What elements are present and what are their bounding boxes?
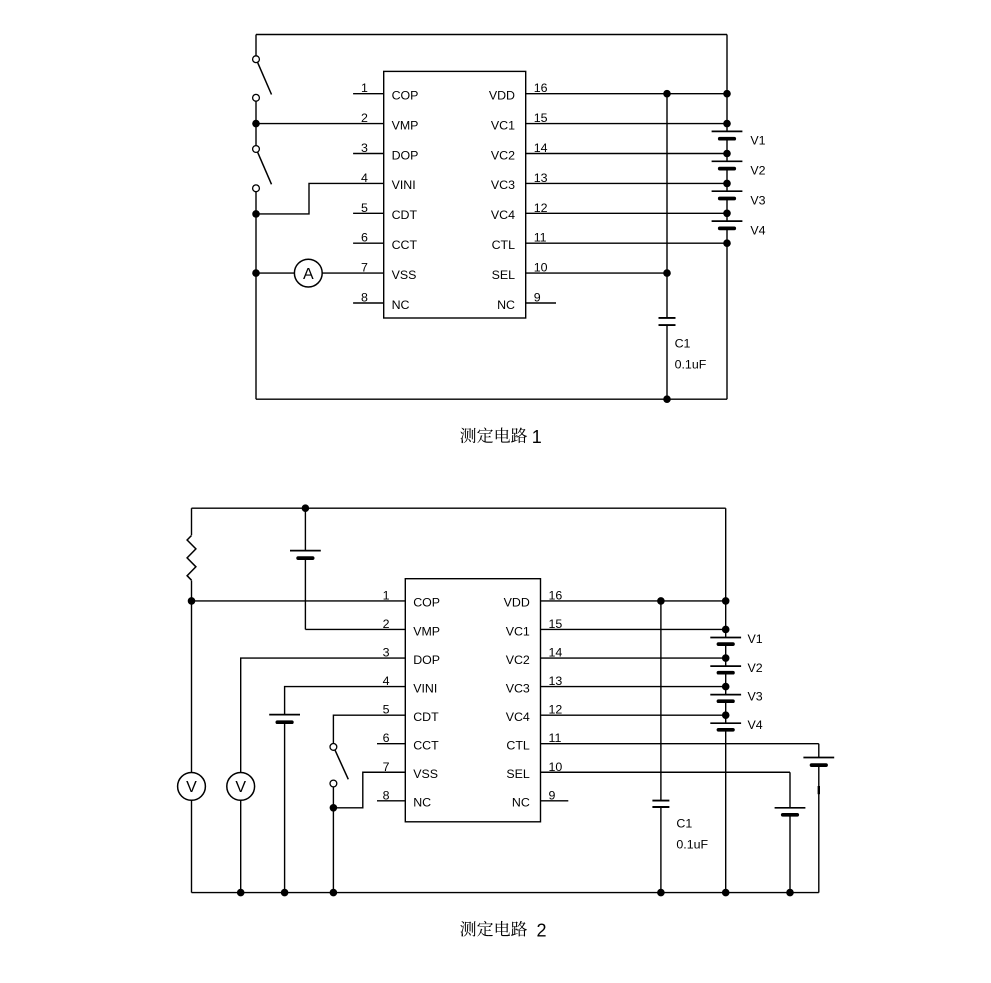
- svg-text:V3: V3: [748, 689, 763, 703]
- caption: 测定电路 2: [460, 920, 546, 940]
- battery B3 branch (from CTL): [803, 744, 834, 893]
- wire: capacitor C1 branch (circuit 2) lower: [660, 807, 662, 893]
- svg-text:VMP: VMP: [413, 624, 440, 638]
- battery B2: [269, 715, 300, 723]
- battery V2 (circuit 2): [710, 666, 741, 673]
- svg-text:VC3: VC3: [491, 178, 515, 192]
- wire: circuit-1 top rail: [256, 34, 727, 36]
- node: junction on left rail at pin 5 level: [252, 210, 260, 218]
- svg-text:V2: V2: [750, 164, 765, 178]
- node: SEL / C1 junction: [663, 269, 671, 277]
- wire: battery stack column segments (circuit 2): [725, 508, 727, 892]
- svg-text:8: 8: [361, 291, 368, 305]
- svg-text:VC4: VC4: [491, 208, 515, 222]
- node: battery stack junction at pin 11: [723, 239, 731, 247]
- U2 pin 8 stub: [377, 800, 405, 802]
- svg-text:VINI: VINI: [392, 178, 416, 192]
- U1 pin 9 stub: [526, 302, 556, 304]
- svg-text:6: 6: [383, 731, 390, 745]
- wire: switch to bottom rail: [332, 787, 334, 893]
- svg-text:COP: COP: [392, 89, 419, 103]
- svg-text:NC: NC: [497, 298, 515, 312]
- node: battery stack junction at pin 12 (circuit 2): [722, 711, 730, 719]
- svg-text:CCT: CCT: [413, 739, 439, 753]
- wire: U2 pin 14 to battery stack: [541, 657, 726, 659]
- wire: U1 pin 16 (VDD) to battery stack: [526, 93, 727, 95]
- U1 pin 8 stub: [353, 302, 384, 304]
- wire: battery stack column segments: [726, 35, 728, 400]
- node: VDD / C1 junction: [663, 90, 671, 98]
- wire: circuit-1 bottom rail: [256, 398, 727, 400]
- wire: stepped wire from switch branch to U2 pin 7 (VSS): [333, 772, 405, 808]
- svg-text:VC2: VC2: [506, 653, 530, 667]
- switch S2 (open): [253, 146, 272, 192]
- svg-text:C1: C1: [675, 336, 691, 350]
- svg-text:8: 8: [383, 788, 390, 802]
- svg-text:VMP: VMP: [392, 118, 419, 132]
- svg-text:VC3: VC3: [506, 681, 530, 695]
- wire: circuit-1 left rail upper segment: [255, 35, 257, 56]
- svg-text:5: 5: [383, 703, 390, 717]
- svg-text:VINI: VINI: [413, 681, 437, 695]
- U2 pin 6 stub: [377, 743, 405, 745]
- battery V4 (circuit 2): [710, 723, 741, 730]
- wire: capacitor C1 branch upper: [666, 94, 668, 317]
- wire: U1 pin 11 to battery stack: [526, 242, 727, 244]
- wire: circuit-2 left rail above resistor: [191, 508, 193, 535]
- svg-text:4: 4: [361, 171, 368, 185]
- wire: U2 pin 5 (CDT) branch to switch: [333, 715, 405, 743]
- svg-text:2: 2: [537, 920, 547, 940]
- svg-text:V4: V4: [748, 718, 763, 732]
- battery B4 branch (from SEL): [775, 772, 806, 892]
- wire: ammeter to U1 pin 7 (VSS): [322, 272, 384, 274]
- svg-text:7: 7: [361, 261, 368, 275]
- node: battery stack junction at pin 16: [723, 90, 731, 98]
- wire: U1 pin 13 to battery stack: [526, 182, 727, 184]
- svg-text:COP: COP: [413, 596, 440, 610]
- svg-text:VC2: VC2: [491, 148, 515, 162]
- wire: B2 to bottom rail: [284, 722, 286, 892]
- wire: U1 pin 15 to battery stack: [526, 123, 727, 125]
- svg-text:VSS: VSS: [392, 268, 417, 282]
- wire: U2 pin 12 to battery stack: [541, 714, 726, 716]
- node: B4 / bottom rail junction: [786, 889, 794, 897]
- svg-text:V2: V2: [748, 661, 763, 675]
- wire: U2 pin 10 (SEL) to battery B4: [541, 771, 791, 773]
- svg-text:2: 2: [383, 617, 390, 631]
- battery B1 branch from top rail: [290, 508, 321, 629]
- svg-text:V: V: [235, 779, 246, 796]
- node: battery stack / bottom rail junction (circuit 2): [722, 889, 730, 897]
- wire: capacitor C1 branch lower: [666, 325, 668, 399]
- wire: capacitor C1 branch (circuit 2) upper: [660, 601, 662, 801]
- node: voltmeter 2 / bottom rail junction: [237, 889, 245, 897]
- svg-text:5: 5: [361, 201, 368, 215]
- svg-text:V4: V4: [750, 223, 765, 237]
- svg-text:DOP: DOP: [392, 148, 419, 162]
- wire: U2 pin 11 (CTL) to battery B3: [541, 743, 819, 745]
- battery V2: [712, 161, 743, 168]
- svg-text:VDD: VDD: [504, 596, 530, 610]
- wire: circuit-2 bottom rail: [192, 892, 819, 894]
- svg-text:1: 1: [383, 588, 390, 602]
- svg-text:A: A: [303, 266, 314, 283]
- wire: U1 pin 14 to battery stack: [526, 153, 727, 155]
- svg-text:CDT: CDT: [413, 710, 439, 724]
- svg-text:VSS: VSS: [413, 767, 438, 781]
- switch S1 (open): [253, 56, 272, 101]
- wire: left rail down to voltmeter 1: [191, 601, 193, 773]
- svg-text:3: 3: [383, 646, 390, 660]
- IC U2 body (circuit 2): [405, 579, 540, 822]
- node: battery stack junction at pin 12: [723, 210, 731, 218]
- svg-text:V1: V1: [748, 632, 763, 646]
- wire: voltmeter 2 to bottom rail: [240, 800, 242, 892]
- resistor (zigzag): [187, 536, 196, 581]
- caption: 测定电路 1: [460, 427, 542, 447]
- svg-text:VC4: VC4: [506, 710, 530, 724]
- svg-text:C1: C1: [676, 817, 692, 831]
- wire: U2 pin 13 to battery stack: [541, 686, 726, 688]
- svg-text:CCT: CCT: [392, 238, 418, 252]
- wire: U2 pin 15 to battery stack: [541, 628, 726, 630]
- capacitor C1 (circuit 2): [652, 801, 669, 807]
- U1 pin 3 stub: [353, 153, 384, 155]
- svg-text:DOP: DOP: [413, 653, 440, 667]
- wire: left rail between switches: [255, 101, 257, 145]
- node: battery stack junction at pin 14 (circuit 2): [722, 654, 730, 662]
- svg-text:4: 4: [383, 674, 390, 688]
- wire: U2 pin 3 (DOP) branch: [241, 658, 406, 772]
- svg-text:V1: V1: [750, 134, 765, 148]
- svg-text:2: 2: [361, 111, 368, 125]
- node: junction on left rail at pin 2: [252, 120, 260, 128]
- node: battery stack junction at pin 15: [723, 120, 731, 128]
- wire: left rail lower segment: [255, 192, 257, 400]
- svg-text:VC1: VC1: [506, 624, 530, 638]
- battery V1: [712, 131, 743, 138]
- wire: circuit-2 top rail: [192, 507, 726, 509]
- svg-text:V: V: [186, 779, 197, 796]
- wire: left rail to U1 pin 2 (VMP): [256, 123, 384, 125]
- node: battery stack top junction (circuit 2): [722, 597, 730, 605]
- svg-text:NC: NC: [512, 796, 530, 810]
- svg-text:7: 7: [383, 760, 390, 774]
- wire: stepped wire from left rail to U1 pin 4 (VINI): [256, 183, 384, 214]
- svg-text:CTL: CTL: [492, 238, 516, 252]
- node: C1 to bottom rail junction: [663, 395, 671, 403]
- wire: U2 pin 4 (VINI) branch: [285, 687, 406, 715]
- wire: left rail to ammeter: [256, 272, 294, 274]
- svg-text:3: 3: [361, 141, 368, 155]
- svg-text:CTL: CTL: [506, 739, 530, 753]
- U1 pin 6 stub: [353, 242, 384, 244]
- node: VDD / C1 junction (circuit 2): [657, 597, 665, 605]
- battery V4: [712, 221, 743, 228]
- IC U1 body (circuit 1): [384, 71, 526, 318]
- battery V1 (circuit 2): [710, 638, 741, 645]
- svg-text:0.1uF: 0.1uF: [675, 358, 707, 372]
- svg-text:1: 1: [361, 81, 368, 95]
- node: top rail / B1 junction: [302, 504, 310, 512]
- wire: voltmeter 1 to bottom rail: [191, 800, 193, 892]
- node: battery stack junction at pin 13 (circuit 2): [722, 683, 730, 691]
- svg-text:SEL: SEL: [492, 268, 516, 282]
- node: B2 / bottom rail junction: [281, 889, 289, 897]
- battery V3 (circuit 2): [710, 695, 741, 702]
- battery V3: [712, 191, 743, 198]
- node: battery stack junction at pin 13: [723, 180, 731, 188]
- svg-text:VDD: VDD: [489, 89, 515, 103]
- U1 pin 5 stub: [353, 212, 384, 214]
- svg-text:NC: NC: [392, 298, 410, 312]
- wire: U2 pin 16 (VDD) to battery stack: [541, 600, 726, 602]
- svg-text:1: 1: [532, 427, 542, 447]
- U2 pin 9 stub: [541, 800, 569, 802]
- node: left rail / COP junction: [188, 597, 196, 605]
- svg-text:6: 6: [361, 231, 368, 245]
- wire: doubled segment on B3 column: [818, 786, 820, 794]
- svg-text:VC1: VC1: [491, 118, 515, 132]
- svg-text:V3: V3: [750, 194, 765, 208]
- node: battery stack junction at pin 14: [723, 150, 731, 158]
- wire: left rail to U2 pin 1 (COP): [192, 600, 406, 602]
- svg-text:0.1uF: 0.1uF: [676, 837, 708, 851]
- node: C1 / bottom rail junction (circuit 2): [657, 889, 665, 897]
- voltmeter V (left): [178, 773, 206, 801]
- node: switch branch junction: [330, 804, 338, 812]
- svg-text:CDT: CDT: [392, 208, 418, 222]
- node: battery stack junction at pin 15 (circuit 2): [722, 626, 730, 634]
- svg-text:NC: NC: [413, 796, 431, 810]
- wire: U1 pin 10 (SEL) to capacitor branch: [526, 272, 667, 274]
- wire: left rail below resistor: [191, 580, 193, 601]
- voltmeter V (second): [227, 773, 255, 801]
- U1 pin 1 stub: [353, 93, 384, 95]
- svg-text:SEL: SEL: [506, 767, 530, 781]
- node: switch branch / bottom rail junction: [330, 889, 338, 897]
- wire: B1 to U2 pin 2 (VMP): [305, 628, 405, 630]
- wire: U1 pin 12 to battery stack: [526, 212, 727, 214]
- ammeter A: [294, 259, 322, 287]
- node: junction on left rail at pin 7: [252, 269, 260, 277]
- capacitor C1: [659, 318, 676, 325]
- switch S3 (open): [330, 744, 348, 787]
